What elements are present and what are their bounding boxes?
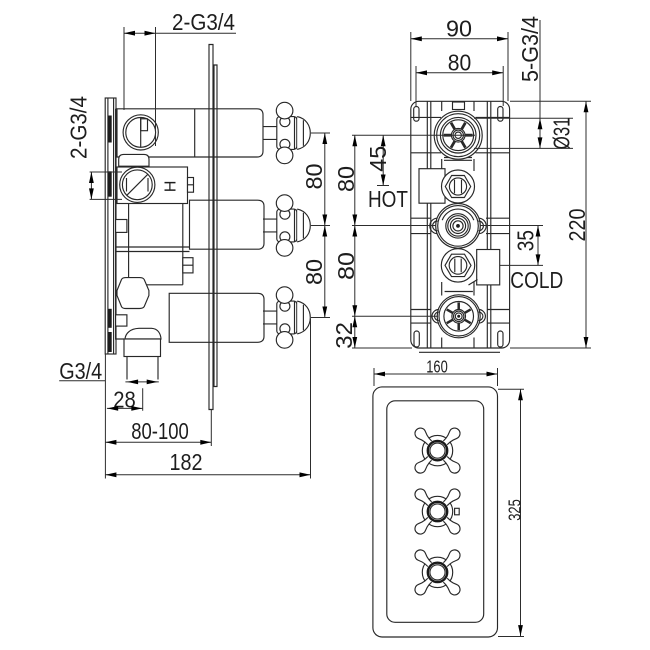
dimension 220 [510, 101, 591, 348]
handle 2 lever tab [455, 508, 460, 515]
dimension 80 handle spacing lower [322, 226, 327, 237]
bottom wheel ears [432, 310, 439, 324]
handle 1 side view [263, 102, 310, 163]
dimension 80 handle spacing upper [311, 133, 330, 318]
valve block 2 [117, 167, 188, 204]
side outlet hex port [117, 278, 149, 309]
wall plate screw slots [108, 116, 112, 143]
dimension 80 front lower [352, 226, 357, 237]
cover plate inner [387, 401, 484, 623]
svg-text:35: 35 [512, 230, 538, 251]
handle 3 side view [263, 287, 310, 348]
valve body left edge [116, 109, 124, 339]
svg-text:80: 80 [333, 252, 359, 280]
svg-text:H: H [163, 181, 180, 193]
dimension 80 front upper [352, 135, 357, 146]
chrome cover plate outer (edge view) [209, 45, 213, 410]
bracket inner edges [427, 102, 491, 349]
thermostat ears [430, 218, 438, 233]
cross handle 1 [415, 428, 460, 473]
inlet port circle 2 [120, 167, 155, 202]
cap between ports [119, 154, 149, 166]
left notch tab upper [116, 220, 127, 233]
valve 1 cylinder body [117, 109, 263, 157]
svg-text:80: 80 [333, 166, 359, 192]
cross handle 2 [415, 489, 460, 534]
svg-text:Ø31: Ø31 [549, 117, 575, 149]
clip tab [183, 258, 193, 273]
svg-text:45: 45 [365, 146, 391, 172]
bottom outlet arch [125, 328, 161, 339]
wall mounting plate (edge view) [105, 98, 116, 354]
dimension 28 pipe [125, 381, 158, 383]
svg-text:182: 182 [170, 449, 203, 475]
handle 2 side view [263, 195, 310, 256]
cross handle 3 [415, 550, 460, 595]
svg-text:80: 80 [301, 163, 327, 189]
bracket screw slots [414, 107, 419, 122]
svg-text:80: 80 [301, 259, 327, 285]
svg-text:80-100: 80-100 [131, 418, 189, 444]
flange lines [444, 158, 473, 292]
dimension 45 [377, 135, 389, 185]
svg-text:90: 90 [446, 16, 472, 42]
chrome cover plate inner (edge view) [214, 65, 217, 387]
top port stub [453, 102, 465, 110]
left dimension column [352, 135, 475, 348]
inlet port circle 1 [123, 115, 158, 150]
HOT inlet block [419, 169, 445, 204]
hex nut circle 2 [442, 170, 475, 203]
hex nut circle 4 [441, 249, 474, 282]
valve 3 cylinder body [169, 293, 264, 342]
svg-text:2-G3/4: 2-G3/4 [172, 9, 235, 35]
svg-text:220: 220 [564, 208, 590, 241]
bracket bend lines [411, 117, 510, 152]
COLD inlet block [477, 250, 500, 285]
svg-text:5-G3/4: 5-G3/4 [517, 16, 543, 82]
port wheel circle 5 [437, 295, 480, 338]
svg-text:HOT: HOT [368, 186, 408, 212]
svg-text:80: 80 [448, 50, 472, 76]
cartridge column [129, 204, 183, 285]
dimension dia 31 [474, 20, 573, 148]
bottom outlet elbow block [124, 339, 161, 357]
cover plate outer [373, 387, 498, 637]
svg-text:2-G3/4: 2-G3/4 [66, 96, 92, 159]
dimension 325 [498, 389, 524, 636]
valve 2 cylinder body [190, 200, 265, 249]
dimension 35 [480, 226, 543, 266]
svg-text:325: 325 [505, 499, 525, 521]
body column verticals [442, 102, 474, 349]
port wheel circle 1 [434, 111, 482, 159]
svg-text:COLD: COLD [510, 267, 563, 293]
svg-text:32: 32 [331, 322, 357, 349]
thermostat circle 3 [436, 204, 481, 249]
svg-text:G3/4: G3/4 [59, 358, 102, 384]
mounting bracket plate [411, 101, 510, 348]
dimension 32 [352, 316, 357, 327]
bottom outlet pipe [127, 357, 158, 380]
division lines [116, 247, 190, 252]
left notch tab lower [116, 315, 127, 326]
